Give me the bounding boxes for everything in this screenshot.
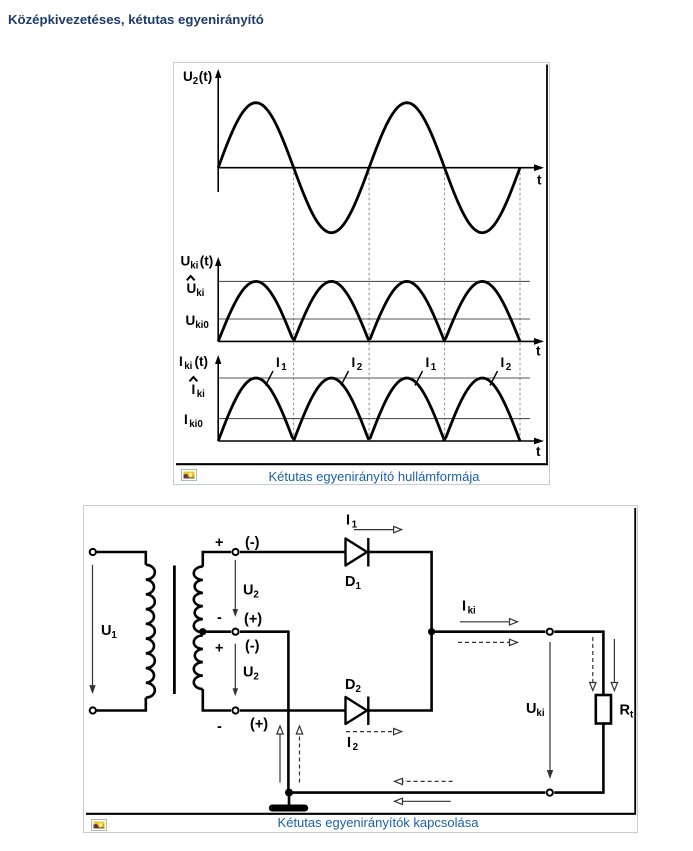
svg-text:2: 2 xyxy=(253,672,259,683)
svg-text:I: I xyxy=(462,599,466,615)
svg-text:U: U xyxy=(181,254,191,269)
svg-text:1: 1 xyxy=(431,362,437,373)
svg-text:I: I xyxy=(501,355,505,370)
svg-text:(t): (t) xyxy=(199,69,213,84)
svg-text:D: D xyxy=(345,574,355,590)
svg-text:2: 2 xyxy=(357,362,363,373)
svg-text:ki: ki xyxy=(536,708,544,719)
svg-text:1: 1 xyxy=(356,581,362,592)
svg-text:-: - xyxy=(217,719,222,735)
svg-text:-: - xyxy=(217,610,222,626)
svg-text:R: R xyxy=(620,703,631,719)
svg-text:2: 2 xyxy=(353,742,359,753)
svg-text:I: I xyxy=(347,735,351,751)
svg-text:ki: ki xyxy=(190,261,198,272)
svg-text:ki0: ki0 xyxy=(189,419,203,430)
svg-text:I: I xyxy=(426,355,430,370)
svg-text:1: 1 xyxy=(111,630,117,641)
svg-text:(-): (-) xyxy=(245,535,260,551)
svg-text:U: U xyxy=(183,69,193,84)
svg-text:(+): (+) xyxy=(250,717,268,733)
svg-text:ki0: ki0 xyxy=(195,320,209,331)
svg-text:I: I xyxy=(192,382,196,397)
svg-text:t: t xyxy=(536,344,541,359)
svg-text:(+): (+) xyxy=(244,612,262,628)
svg-text:U: U xyxy=(186,313,196,328)
svg-text:ki: ki xyxy=(184,361,192,372)
svg-text:I: I xyxy=(346,513,350,529)
svg-text:(-): (-) xyxy=(245,639,260,655)
svg-text:U: U xyxy=(243,665,253,681)
svg-text:D: D xyxy=(345,677,355,693)
svg-text:1: 1 xyxy=(281,362,287,373)
svg-text:I: I xyxy=(276,355,280,370)
svg-text:t: t xyxy=(630,710,634,721)
svg-text:2: 2 xyxy=(506,362,512,373)
svg-text:ki: ki xyxy=(197,389,205,400)
svg-text:U: U xyxy=(101,623,111,639)
svg-text:I: I xyxy=(352,355,356,370)
svg-text:ki: ki xyxy=(196,288,204,299)
svg-text:t: t xyxy=(537,173,542,188)
svg-text:2: 2 xyxy=(356,684,362,695)
svg-text:U: U xyxy=(526,701,536,717)
svg-text:ki: ki xyxy=(468,606,476,617)
svg-text:(t): (t) xyxy=(200,254,214,269)
svg-text:I: I xyxy=(179,354,183,369)
svg-text:2: 2 xyxy=(253,590,259,601)
svg-text:(t): (t) xyxy=(195,354,209,369)
svg-text:U: U xyxy=(243,583,253,599)
svg-text:2: 2 xyxy=(193,76,199,87)
svg-text:1: 1 xyxy=(352,520,358,531)
svg-text:+: + xyxy=(215,641,223,657)
svg-text:U: U xyxy=(187,281,197,296)
svg-text:t: t xyxy=(536,444,541,459)
svg-text:+: + xyxy=(215,535,223,551)
svg-text:I: I xyxy=(184,412,188,427)
